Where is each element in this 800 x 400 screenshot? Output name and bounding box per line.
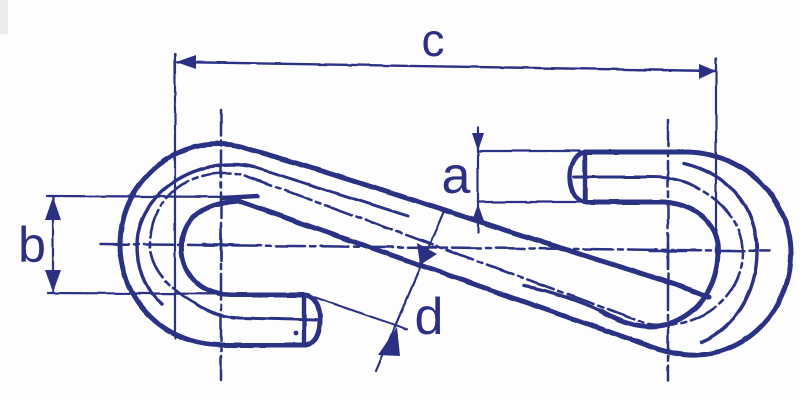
- dimension a shaft: [477, 128, 479, 232]
- right hook vertical centerline: [667, 120, 670, 381]
- dimension d auxiliary extension line: [314, 297, 407, 329]
- wire centerline dash-dot path: [150, 173, 743, 325]
- dimension b shaft: [52, 196, 54, 293]
- arrow a top (pointing down): [472, 133, 484, 151]
- svg-text:b: b: [18, 217, 46, 273]
- dimension b top extension: [47, 196, 252, 197]
- horizontal centerline axis: [100, 244, 770, 251]
- left hook inner contour top tail: [222, 196, 258, 198]
- left bend highlight line: [254, 167, 408, 216]
- arrow d lower (pointing up-right): [378, 327, 400, 356]
- scan smudge top-left: [0, 0, 8, 34]
- dimension b bottom extension: [48, 293, 240, 294]
- dimension c line: [176, 62, 716, 71]
- speck dot in left cap: [294, 331, 299, 336]
- right bend highlight line: [684, 163, 757, 342]
- right hook inner contour tail along diagonal: [524, 286, 601, 311]
- S-hook wire outline main loop: [120, 144, 791, 355]
- right tip cap chord: [583, 152, 587, 202]
- arrow b bottom (pointing down): [45, 270, 61, 292]
- svg-text:c: c: [422, 14, 445, 66]
- right hook inner contour: [586, 202, 718, 326]
- svg-text:a: a: [442, 147, 471, 205]
- dimension c right extension line: [715, 58, 717, 253]
- center tick left hook: [203, 244, 239, 245]
- dimension c left extension line: [174, 54, 176, 338]
- arrow d upper: [417, 243, 437, 265]
- wire centerline solid tip segment right: [574, 177, 699, 189]
- arrow c right: [699, 64, 716, 79]
- dimension a bottom extension: [478, 201, 580, 203]
- dimension a top extension: [478, 150, 580, 152]
- arrow a bottom (pointing up): [472, 204, 484, 221]
- wire centerline solid tip segment left: [196, 304, 316, 320]
- svg-text:d: d: [415, 288, 444, 346]
- center tick right hook: [650, 250, 686, 253]
- arrow c left: [176, 55, 196, 69]
- left hook vertical centerline: [220, 110, 223, 380]
- dimension d leader line: [376, 211, 444, 371]
- arrow b top (pointing up): [45, 197, 61, 220]
- left tip cap chord: [302, 297, 306, 344]
- right tip cap dome: [570, 152, 585, 202]
